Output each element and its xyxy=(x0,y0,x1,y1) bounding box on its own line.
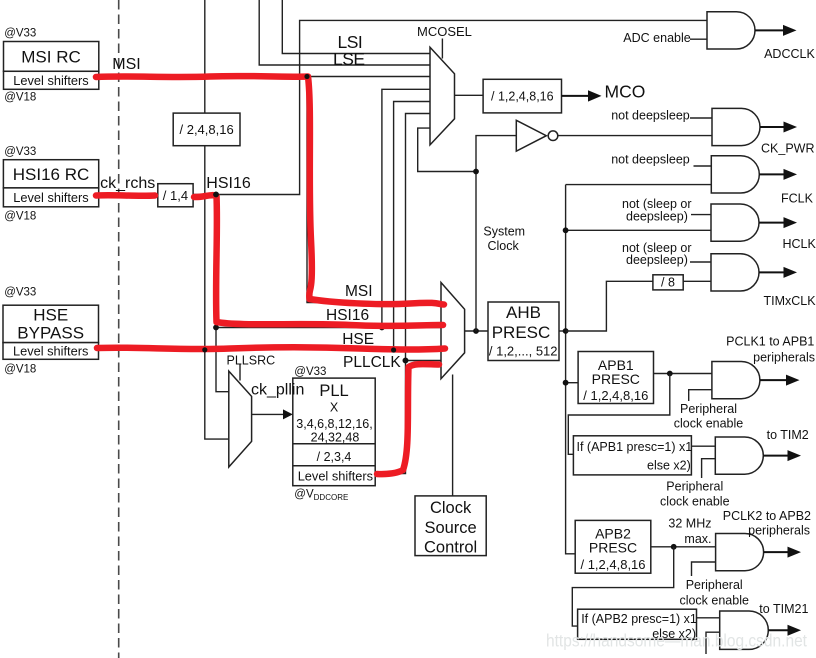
svg-text:Level shifters: Level shifters xyxy=(13,190,88,205)
svg-text:/ 1,2,..., 512: / 1,2,..., 512 xyxy=(489,344,558,359)
svg-text:deepsleep): deepsleep) xyxy=(626,253,688,267)
AND gate TIMxCLK xyxy=(711,254,759,291)
red highlight HSI16 path (/1,4 to system mux) xyxy=(194,195,443,326)
MSI level shifters xyxy=(4,71,99,89)
wire HSI16 riser to MCOSEL input 4 xyxy=(382,89,430,327)
svg-text:HSI16 RC: HSI16 RC xyxy=(13,165,90,184)
AHB PRESC box xyxy=(488,302,559,361)
svg-text:to TIM2: to TIM2 xyxy=(767,428,809,442)
svg-text:Level shifters: Level shifters xyxy=(298,469,373,484)
oscillator HSI16 RC xyxy=(3,160,98,188)
arrow PCLK2 output xyxy=(764,547,801,558)
svg-text:else x2): else x2) xyxy=(647,458,691,472)
svg-text:not deepsleep: not deepsleep xyxy=(611,153,690,167)
wire PCLK1 gate enable input xyxy=(689,390,712,401)
svg-text:HSI16: HSI16 xyxy=(206,175,251,192)
wire system mux select from Clock Source Control xyxy=(452,375,454,496)
wire HSE down branch to PLLSRC mux lower input xyxy=(205,350,229,440)
svg-text:LSE: LSE xyxy=(333,49,365,69)
svg-text:3,4,6,8,12,16,: 3,4,6,8,12,16, xyxy=(296,417,372,431)
divider /1,4 (HSI16) xyxy=(158,184,193,207)
arrow FCLK output xyxy=(759,169,797,180)
wire SYSCLK to MCOSEL input 7 xyxy=(418,128,476,171)
svg-text:Peripheral: Peripheral xyxy=(680,402,737,416)
wire LSI from top edge to MCOSEL input 1 xyxy=(282,0,430,54)
oscillator MSI RC xyxy=(4,42,99,72)
divider /2,4,8,16 (HSE to RTC) xyxy=(173,113,240,146)
wire MCOSEL select line xyxy=(441,39,443,59)
svg-text:ADC enable: ADC enable xyxy=(623,31,690,45)
If (APB1 presc=1) box xyxy=(573,436,691,475)
HSE level shifters xyxy=(3,343,99,360)
wire HSI16 row to system clock mux xyxy=(216,327,441,329)
arrow HCLK output xyxy=(759,217,797,228)
node SYSCLK output junction xyxy=(473,328,479,334)
wire HSE riser to MCOSEL input 5 xyxy=(394,102,430,350)
svg-text:Peripheral: Peripheral xyxy=(666,479,723,493)
svg-text:MSI: MSI xyxy=(112,56,140,73)
svg-text:@V18: @V18 xyxy=(4,92,36,104)
svg-text:https://handsome—man.blog.csdn: https://handsome—man.blog.csdn.net xyxy=(546,631,807,651)
APB2 PRESC box xyxy=(575,520,651,573)
wire /8 divider input from HCLK rail xyxy=(566,281,653,331)
arrow TIM21 output xyxy=(768,625,801,636)
wire TIMxCLK not-sleep stub xyxy=(690,261,711,263)
svg-text:/ 1,2,4,8,16: / 1,2,4,8,16 xyxy=(583,388,648,403)
svg-text:MSI RC: MSI RC xyxy=(21,48,81,67)
wire APB1 PRESC output to PCLK1 gate xyxy=(654,373,712,375)
svg-text:X: X xyxy=(330,401,339,415)
svg-text:Level shifters: Level shifters xyxy=(13,73,88,88)
Clock Source Control box xyxy=(415,496,486,556)
svg-text:System: System xyxy=(483,225,525,239)
wire MCOSEL mux output to /1,2,4,8,16 xyxy=(455,94,484,96)
svg-text:ck_pllin: ck_pllin xyxy=(251,381,304,398)
arrow PCLK1 output xyxy=(760,375,800,386)
svg-text:PRESC: PRESC xyxy=(592,371,640,387)
AND gate ADCCLK xyxy=(707,12,755,49)
wire HSI16 RC output to /1,4 divider xyxy=(99,194,158,196)
wire HSE vertical: top edge through /2,4,8,16 down to HSE row xyxy=(204,0,206,350)
svg-text:@V33: @V33 xyxy=(4,287,36,299)
wire If(APB2) output to TIM21 gate xyxy=(697,617,720,619)
node SYSCLK upper junction xyxy=(473,169,479,175)
svg-text:/ 8: / 8 xyxy=(661,276,675,290)
wire MSI branch down to system mux MSI row xyxy=(307,77,441,303)
svg-text:max.: max. xyxy=(684,532,711,546)
HSI16 level shifters xyxy=(3,188,98,207)
svg-text:not deepsleep: not deepsleep xyxy=(611,109,690,123)
wire PLLCLK riser: PLL level shifter output up to MCOSEL input 6 xyxy=(375,114,430,474)
arrow MCO output xyxy=(562,90,602,101)
wire PLLCLK row to system clock mux xyxy=(406,360,442,362)
APB1 PRESC box xyxy=(578,352,653,404)
svg-text:CK_PWR: CK_PWR xyxy=(761,142,814,156)
svg-text:PLLSRC: PLLSRC xyxy=(227,354,276,368)
wire HCLK vertical rail xyxy=(566,185,576,554)
node PLLCLK junction redrawn over red xyxy=(403,358,409,364)
svg-text:ck_rchs: ck_rchs xyxy=(100,175,155,192)
node HCLK rail / AHB out xyxy=(563,328,569,334)
svg-text:PCLK2 to APB2: PCLK2 to APB2 xyxy=(723,509,811,523)
wire PCLK2 loop down to If(APB2) box xyxy=(572,547,673,626)
wire LSE from top edge to MCOSEL input 2 xyxy=(259,0,430,65)
AND gate CK_PWR xyxy=(712,108,760,145)
wire PLLSRC select line xyxy=(239,365,241,381)
svg-text:MCOSEL: MCOSEL xyxy=(417,24,472,39)
svg-text:Peripheral: Peripheral xyxy=(686,578,743,592)
svg-text:PCLK1 to APB1: PCLK1 to APB1 xyxy=(726,335,814,349)
wire HCLK gate lower input xyxy=(566,229,711,231)
node HSE junction xyxy=(202,347,208,353)
svg-text:MCO: MCO xyxy=(605,82,646,102)
wire TIM21 gate enable input xyxy=(706,632,720,654)
node APB1 branch xyxy=(563,380,569,386)
wire MSI net: MSI RC output to MCOSEL mux input xyxy=(99,76,430,78)
wire inverter output to CK_PWR gate xyxy=(558,135,712,137)
wire system mux output to AHB PRESC xyxy=(465,330,488,332)
arrow CK_PWR output xyxy=(760,122,797,133)
svg-text:@V33: @V33 xyxy=(294,366,326,378)
svg-text:HSE: HSE xyxy=(33,306,68,325)
svg-text:AHB: AHB xyxy=(506,303,541,322)
oscillator HSE BYPASS xyxy=(3,305,99,342)
wire HSI16 net: /1,4 output right then up to top rail toward ADC gate xyxy=(193,20,707,194)
svg-text:Clock: Clock xyxy=(488,239,520,253)
node HSI16 row junction xyxy=(213,325,219,331)
svg-text:Control: Control xyxy=(424,538,477,556)
svg-text:If (APB1 presc=1) x1: If (APB1 presc=1) x1 xyxy=(577,440,693,454)
AND gate PCLK1 xyxy=(712,362,760,399)
svg-text:HCLK: HCLK xyxy=(783,237,816,251)
AND gate TIM2 xyxy=(715,437,763,474)
svg-text:deepsleep): deepsleep) xyxy=(626,210,688,224)
node PCLK1 junction xyxy=(667,371,673,377)
svg-text:@V33: @V33 xyxy=(4,28,36,40)
AND gate FCLK xyxy=(711,156,759,193)
arrow TIMxCLK output xyxy=(759,267,797,278)
svg-text:/ 2,4,8,16: / 2,4,8,16 xyxy=(179,122,233,137)
svg-text:TIMxCLK: TIMxCLK xyxy=(764,294,816,308)
wire HSI16 branch down: to system mux row and PLLSRC mux input xyxy=(216,195,229,392)
divider /8 (TIMxCLK) xyxy=(653,275,683,290)
AND gate HCLK xyxy=(711,204,759,241)
node HSE junction redrawn over red xyxy=(202,347,207,352)
wire PLLSRC mux output to PLL with arrowhead xyxy=(252,413,283,415)
wire FCLK gate lower input xyxy=(566,184,712,186)
wire CK_PWR not-deepsleep stub xyxy=(690,117,712,119)
svg-text:clock enable: clock enable xyxy=(679,593,749,607)
svg-text:MSI: MSI xyxy=(345,283,373,300)
V33/V18 domain boundary dashed line xyxy=(118,0,120,658)
node HSI16/MCO junction xyxy=(379,325,385,331)
AND gate TIM21 xyxy=(720,611,769,649)
wire SYSCLK vertical up to inverter input xyxy=(476,136,516,331)
wire PCLK2 gate enable input xyxy=(692,562,716,576)
svg-text:Source: Source xyxy=(424,519,476,537)
mux system clock (SW) xyxy=(441,283,465,379)
svg-text:/ 1,2,4,8,16: / 1,2,4,8,16 xyxy=(580,557,645,572)
svg-text:Level shifters: Level shifters xyxy=(13,344,88,359)
svg-text:BYPASS: BYPASS xyxy=(17,324,84,343)
divider /1,2,4,8,16 (MCO) xyxy=(483,79,561,113)
red highlight HSI16 path (RC to /1,4) xyxy=(96,192,155,199)
wire PCLK1 loop down to If(APB1) box xyxy=(568,374,670,455)
svg-text:/ 2,3,4: / 2,3,4 xyxy=(317,450,352,464)
red highlight MSI path xyxy=(96,76,444,304)
svg-text:to TIM21: to TIM21 xyxy=(759,602,808,616)
svg-text:clock enable: clock enable xyxy=(674,417,744,431)
AND gate PCLK2 xyxy=(716,534,764,571)
red highlight HSE path xyxy=(97,347,445,349)
wire APB2 PRESC output to PCLK2 gate xyxy=(651,546,716,548)
wire HCLK not-sleep stub xyxy=(691,214,711,216)
svg-text:24,32,48: 24,32,48 xyxy=(311,431,360,445)
svg-text:PLLCLK: PLLCLK xyxy=(343,354,401,371)
svg-text:PRESC: PRESC xyxy=(492,323,551,342)
wire APB1 PRESC input xyxy=(566,382,579,384)
arrow TIM2 output xyxy=(763,450,801,461)
svg-text:@V33: @V33 xyxy=(4,146,36,158)
wire AHB PRESC output to HCLK vertical rail xyxy=(559,330,566,332)
node HSE riser junction redrawn over red xyxy=(391,347,396,352)
wire ADC enable stub xyxy=(690,38,707,40)
svg-text:ADCCLK: ADCCLK xyxy=(764,47,815,61)
arrow ADCCLK output xyxy=(755,25,797,36)
svg-text:/ 1,4: / 1,4 xyxy=(163,188,188,203)
mux PLLSRC xyxy=(229,371,252,467)
If (APB2 presc=1) box xyxy=(578,609,697,639)
svg-text:/ 1,2,4,8,16: / 1,2,4,8,16 xyxy=(491,89,554,103)
mux MCOSEL xyxy=(430,47,455,145)
svg-text:clock enable: clock enable xyxy=(660,495,730,509)
svg-text:@V18: @V18 xyxy=(4,211,36,223)
svg-text:If (APB2 presc=1) x1: If (APB2 presc=1) x1 xyxy=(581,612,697,626)
svg-text:32 MHz: 32 MHz xyxy=(668,516,711,530)
node HSI16 junction at divider output xyxy=(213,192,219,198)
wire TIM2 gate enable input xyxy=(702,459,716,478)
node MSI junction redrawn over red xyxy=(304,74,309,79)
wire HSE row: HSE BYPASS output to system clock mux xyxy=(99,349,442,351)
wire FCLK not-deepsleep stub xyxy=(694,165,712,167)
node HSE/MCO junction xyxy=(391,347,397,353)
node PLLCLK junction xyxy=(403,358,409,364)
wire If(APB1) output to TIM2 gate xyxy=(691,445,715,447)
svg-text:peripherals: peripherals xyxy=(748,524,810,538)
inverter (not deepsleep path) xyxy=(516,120,546,151)
wire /8 output to TIMxCLK gate xyxy=(683,280,711,282)
node HSI16 junction redrawn over red xyxy=(213,192,219,198)
svg-text:FCLK: FCLK xyxy=(781,192,814,206)
svg-text:PLL: PLL xyxy=(319,382,348,400)
svg-text:@V18: @V18 xyxy=(4,364,36,376)
node PCLK2 junction xyxy=(671,544,677,550)
PLL box xyxy=(293,378,375,486)
svg-text:PRESC: PRESC xyxy=(589,540,637,556)
red highlight PLL/PLLCLK path xyxy=(377,364,439,474)
svg-text:peripherals: peripherals xyxy=(753,351,815,365)
svg-text:Clock: Clock xyxy=(430,499,472,517)
node MSI junction xyxy=(304,74,310,80)
node HCLK branch xyxy=(563,227,569,233)
